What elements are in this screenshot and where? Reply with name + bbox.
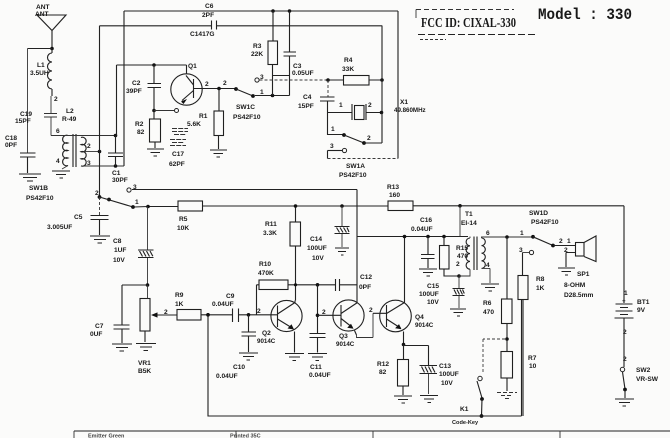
svg-text:2: 2 <box>322 309 326 316</box>
svg-text:1K: 1K <box>536 285 545 292</box>
capacitor C9 <box>212 293 278 322</box>
wire top rail y11 <box>124 10 398 12</box>
svg-text:R10: R10 <box>259 261 271 268</box>
svg-text:C9: C9 <box>226 293 235 300</box>
svg-text:2: 2 <box>257 308 261 315</box>
wire SW1B terminal1 to rail <box>134 206 148 209</box>
svg-text:2: 2 <box>623 356 627 363</box>
svg-text:2: 2 <box>223 80 227 87</box>
switch SW1B <box>26 184 139 209</box>
transistor Q3 <box>322 300 364 348</box>
resistor R1 <box>187 89 224 150</box>
svg-text:C7: C7 <box>95 323 104 330</box>
svg-text:FCC ID: CIXAL-330: FCC ID: CIXAL-330 <box>421 16 516 31</box>
svg-text:C18: C18 <box>5 135 17 142</box>
svg-text:T1: T1 <box>465 211 473 218</box>
transistor Q4 <box>369 237 434 345</box>
node C15 top <box>457 274 461 278</box>
node C2/R2 <box>152 109 156 113</box>
svg-text:0.04UF: 0.04UF <box>216 373 238 380</box>
switch SW1C <box>205 74 264 121</box>
ground under VR1 <box>136 344 156 351</box>
wire rail y206.5 <box>148 205 624 208</box>
svg-text:3.3K: 3.3K <box>263 230 277 237</box>
svg-text:L1: L1 <box>37 62 45 69</box>
svg-text:100UF: 100UF <box>307 245 327 252</box>
FCC ID box <box>416 10 537 40</box>
battery BT1 <box>615 290 650 367</box>
svg-text:10K: 10K <box>177 225 189 232</box>
transistor Q2 <box>257 300 302 352</box>
svg-text:2: 2 <box>559 238 563 245</box>
svg-text:Code-Key: Code-Key <box>452 420 479 426</box>
svg-text:82: 82 <box>137 129 145 136</box>
resistor R9 <box>164 292 233 320</box>
capacitor C14 <box>307 206 350 262</box>
wire supply right down to battery <box>623 206 625 303</box>
wire T1 pin1 <box>459 206 461 237</box>
capacitor C15 <box>419 276 465 308</box>
svg-text:0PF: 0PF <box>359 284 371 291</box>
svg-text:6: 6 <box>486 230 490 237</box>
svg-text:C10: C10 <box>233 364 245 371</box>
resistor R12 <box>377 345 409 396</box>
node C9 right <box>247 313 251 317</box>
resistor R7 <box>501 352 537 392</box>
svg-text:SW1B: SW1B <box>29 185 48 192</box>
node R4 left <box>326 78 330 82</box>
svg-text:C6: C6 <box>205 3 214 10</box>
wire emitter to C13 <box>404 346 429 366</box>
svg-text:39PF: 39PF <box>126 88 142 95</box>
wire to C7 <box>122 285 148 325</box>
svg-text:100UF: 100UF <box>439 371 459 378</box>
capacitor C1 <box>108 136 128 185</box>
potentiometer VR1 <box>138 285 177 375</box>
node R3 bottom <box>271 94 275 98</box>
svg-text:Q4: Q4 <box>415 314 424 321</box>
svg-text:R5: R5 <box>179 216 188 223</box>
capacitor C8 <box>113 207 154 286</box>
resistor R11 <box>263 206 301 301</box>
svg-text:1: 1 <box>135 199 139 206</box>
svg-text:Q3: Q3 <box>339 333 348 340</box>
node C8 bottom <box>146 283 150 287</box>
capacitor C13 <box>420 363 459 394</box>
transformer L2 <box>56 108 91 167</box>
svg-text:C1417G: C1417G <box>190 31 215 38</box>
svg-text:C3: C3 <box>293 63 302 70</box>
capacitor C2 <box>126 65 161 111</box>
svg-text:5.6K: 5.6K <box>187 121 201 128</box>
capacitor C16 <box>411 217 435 268</box>
svg-text:470: 470 <box>483 309 494 316</box>
svg-text:C15: C15 <box>427 283 439 290</box>
wire x124 from top rail to pin3 line <box>123 11 125 166</box>
wire ANT to C18 column <box>28 48 53 50</box>
svg-text:10V: 10V <box>441 380 453 387</box>
svg-text:R12: R12 <box>377 361 389 368</box>
svg-text:SW1A: SW1A <box>346 163 365 170</box>
node R1 top <box>217 87 221 91</box>
svg-text:1: 1 <box>520 230 524 237</box>
inductor L1 <box>30 49 58 103</box>
svg-text:0PF: 0PF <box>5 142 17 149</box>
ground under C5 <box>90 236 110 243</box>
capacitor C7 <box>90 323 130 343</box>
node X1 right <box>380 111 384 115</box>
wire SW1D to speaker <box>553 245 576 247</box>
svg-text:2: 2 <box>368 102 372 109</box>
svg-text:Model : 330: Model : 330 <box>538 6 632 24</box>
ground under T1 pin4 <box>481 284 499 291</box>
node rail R11 <box>294 204 298 208</box>
ground under C18 <box>19 174 41 181</box>
node C9 rail top <box>206 313 210 317</box>
switch SW1D <box>519 210 559 255</box>
wire x116 from y65 down to pin6 node <box>116 65 118 136</box>
capacitor C6 <box>190 3 217 38</box>
svg-text:9014C: 9014C <box>415 322 434 329</box>
resistor R2 <box>135 111 161 149</box>
svg-text:C12: C12 <box>360 274 372 281</box>
svg-text:B5K: B5K <box>138 368 151 375</box>
node ANT junction <box>50 47 54 51</box>
svg-text:SW1C: SW1C <box>236 104 255 111</box>
svg-text:2: 2 <box>367 135 371 142</box>
svg-text:0.04UF: 0.04UF <box>411 226 433 233</box>
svg-text:ANT: ANT <box>36 4 50 11</box>
svg-text:3.005UF: 3.005UF <box>47 224 72 231</box>
svg-text:C13: C13 <box>439 363 451 370</box>
svg-text:62PF: 62PF <box>169 161 185 168</box>
wire SW1A-3 to x398 dashed <box>327 151 329 159</box>
svg-text:Q1: Q1 <box>188 63 197 70</box>
svg-text:X1: X1 <box>400 99 408 106</box>
svg-text:C17: C17 <box>172 151 184 158</box>
svg-text:R7: R7 <box>528 355 537 362</box>
resistor R10 <box>257 261 336 315</box>
svg-text:Printed 35C: Printed 35C <box>230 434 261 438</box>
svg-text:PS42F10: PS42F10 <box>26 195 54 202</box>
svg-text:49.860MHz: 49.860MHz <box>394 107 426 114</box>
wire bottom rail <box>208 300 522 417</box>
switch SW2 <box>620 367 658 398</box>
ground under SW2 <box>615 399 634 406</box>
ground under L2 pin 4 <box>52 171 70 178</box>
ground under Q2 emitter <box>285 354 304 361</box>
wire L2 pin3 line <box>84 165 124 167</box>
node T1-6/R6 <box>505 235 509 239</box>
ground under C13 <box>420 396 438 403</box>
capacitor C18 <box>5 135 36 173</box>
capacitor C17 <box>169 129 188 169</box>
resistor R5 <box>177 201 203 232</box>
svg-text:SW2: SW2 <box>636 367 651 374</box>
svg-text:2: 2 <box>623 329 627 336</box>
wire SW1C t1 to R3/C3 node <box>255 95 290 97</box>
node pin2 junction <box>98 150 102 154</box>
svg-text:9014C: 9014C <box>336 341 355 348</box>
node C11 top <box>316 283 320 287</box>
svg-text:3: 3 <box>330 143 334 150</box>
svg-text:K1: K1 <box>460 406 469 413</box>
wire x398 from top rail <box>397 11 399 159</box>
svg-text:10V: 10V <box>312 255 324 262</box>
svg-text:0.04UF: 0.04UF <box>309 372 331 379</box>
svg-text:R11: R11 <box>265 221 277 228</box>
svg-text:0UF: 0UF <box>90 331 102 338</box>
svg-text:C2: C2 <box>132 80 141 87</box>
svg-text:SW1D: SW1D <box>529 210 548 217</box>
wire rail2 corner x382 down <box>381 26 383 113</box>
node C16 top <box>426 235 430 239</box>
wire node to K1 dashed <box>483 339 505 374</box>
svg-text:2: 2 <box>164 309 168 316</box>
svg-text:D28.5mm: D28.5mm <box>564 292 593 299</box>
svg-text:VR1: VR1 <box>138 360 151 367</box>
speaker SP1 <box>559 236 596 299</box>
wire SW1B-3 line y189.5 <box>132 189 357 191</box>
svg-text:C4: C4 <box>303 94 312 101</box>
node Q4 emitter <box>402 343 406 347</box>
resistor R4 <box>328 57 382 85</box>
node top rail R3 <box>271 9 275 13</box>
node R15 top <box>442 235 446 239</box>
node R6/R7 <box>505 337 509 341</box>
ground under C11 <box>308 354 327 361</box>
wire to Q1 emitter circle <box>154 110 174 112</box>
node C2 top <box>152 63 156 67</box>
svg-text:0.05UF: 0.05UF <box>292 70 314 77</box>
svg-text:1UF: 1UF <box>114 247 126 254</box>
capacitor C11 <box>309 285 331 379</box>
wire R3/C3 bottom link <box>273 76 290 96</box>
node y236 Q4 collector <box>403 235 407 239</box>
svg-text:C14: C14 <box>310 236 322 243</box>
svg-text:C19: C19 <box>20 111 32 118</box>
svg-text:470K: 470K <box>258 270 274 277</box>
table bottom border <box>74 431 670 438</box>
ground under C7 <box>112 344 132 351</box>
node rail/C8 <box>146 205 150 209</box>
svg-text:10V: 10V <box>113 257 125 264</box>
svg-text:4: 4 <box>56 158 60 165</box>
svg-text:1: 1 <box>339 102 343 109</box>
svg-text:15PF: 15PF <box>15 118 31 125</box>
svg-text:1K: 1K <box>175 301 184 308</box>
capacitor C4 <box>298 80 335 113</box>
wire rails link x289 <box>289 11 291 26</box>
svg-text:100UF: 100UF <box>419 291 439 298</box>
wire x99 from rail2 to SW1B <box>99 26 101 197</box>
ground under C14 <box>335 248 349 255</box>
svg-text:R1: R1 <box>199 113 208 120</box>
svg-text:3.5UH: 3.5UH <box>30 70 49 77</box>
svg-text:PS42F10: PS42F10 <box>339 172 367 179</box>
svg-text:0.04UF: 0.04UF <box>212 301 234 308</box>
key K1 <box>452 376 484 426</box>
svg-text:EI-14: EI-14 <box>461 220 477 227</box>
wire y65 from corner to Q1 <box>117 64 187 66</box>
node top rail x289 <box>288 9 292 13</box>
resistor R13 <box>387 184 413 211</box>
antenna ANT <box>35 4 66 49</box>
svg-text:8-OHM: 8-OHM <box>564 282 586 289</box>
switch SW1A <box>328 113 383 180</box>
wire x382 down to SW1A-2 <box>381 113 383 144</box>
node C11/Q3 base <box>316 314 320 318</box>
svg-text:C8: C8 <box>113 238 122 245</box>
capacitor C19 <box>15 96 57 136</box>
svg-text:2: 2 <box>205 81 209 88</box>
svg-text:160: 160 <box>389 192 400 199</box>
node rail C14 <box>340 204 344 208</box>
svg-text:R3: R3 <box>253 43 262 50</box>
node R10/collector <box>294 283 297 286</box>
node pin6/C1 junction <box>114 134 118 138</box>
wire y236.5 line <box>357 236 468 238</box>
wire dashed SW1C-3 to R4 node <box>260 79 329 81</box>
svg-text:2: 2 <box>87 143 91 150</box>
svg-text:10V: 10V <box>427 299 439 306</box>
svg-text:15PF: 15PF <box>298 103 314 110</box>
svg-text:R6: R6 <box>483 300 492 307</box>
svg-text:SP1: SP1 <box>577 271 590 278</box>
capacitor C3 <box>284 26 314 78</box>
svg-text:R8: R8 <box>536 276 545 283</box>
node rail T1 <box>458 204 462 208</box>
svg-text:2: 2 <box>54 96 58 103</box>
svg-text:1: 1 <box>567 238 571 245</box>
svg-text:R4: R4 <box>344 57 353 64</box>
node y314 x208 <box>206 313 210 317</box>
svg-text:R13: R13 <box>387 184 399 191</box>
transformer T1 <box>456 211 533 283</box>
ground under C10 <box>239 353 258 360</box>
svg-text:2: 2 <box>369 307 373 314</box>
svg-text:C16: C16 <box>420 217 432 224</box>
svg-text:R9: R9 <box>175 292 184 299</box>
svg-text:VR-SW: VR-SW <box>636 376 659 383</box>
ground under R2 <box>147 149 164 156</box>
crystal X1 <box>328 99 426 120</box>
svg-text:6: 6 <box>56 128 60 135</box>
svg-text:30PF: 30PF <box>112 177 128 184</box>
wire C18 column <box>27 49 29 154</box>
node K1 bottom rail <box>480 414 484 418</box>
svg-text:1: 1 <box>331 126 335 133</box>
wire x357 down <box>356 190 358 303</box>
node R4 right <box>380 78 384 82</box>
svg-text:9V: 9V <box>637 307 646 314</box>
resistor R15 <box>440 237 469 277</box>
ground under C16 <box>419 269 437 276</box>
wire Q3 emitter to Q4 base <box>357 313 374 337</box>
svg-text:82: 82 <box>379 369 387 376</box>
svg-text:1: 1 <box>624 290 628 297</box>
capacitor C12 <box>336 274 373 291</box>
svg-text:C1: C1 <box>112 170 121 177</box>
svg-text:Q2: Q2 <box>262 330 271 337</box>
ground under C15 <box>450 309 466 316</box>
svg-text:BT1: BT1 <box>637 299 650 306</box>
svg-text:22K: 22K <box>251 51 263 58</box>
svg-text:PS42F10: PS42F10 <box>233 114 261 121</box>
ground under R12 <box>394 396 412 403</box>
svg-text:9014C: 9014C <box>257 338 276 345</box>
svg-text:2PF: 2PF <box>202 12 214 19</box>
svg-text:33K: 33K <box>342 66 354 73</box>
svg-text:C11: C11 <box>310 364 322 371</box>
capacitor C5 <box>47 197 109 235</box>
svg-text:R2: R2 <box>135 121 144 128</box>
resistor R6 <box>483 237 512 352</box>
capacitor C10 <box>216 315 256 380</box>
wire rail2 y25.5 <box>100 25 383 27</box>
transistor Q1 <box>171 63 236 105</box>
node pin3/C1 junction <box>114 164 118 168</box>
resistor R3 <box>251 11 278 96</box>
wire L2 pin4 to ground <box>62 166 68 170</box>
svg-text:R-49: R-49 <box>62 116 77 123</box>
svg-text:Emitter Green: Emitter Green <box>88 434 125 438</box>
wire L2 pin2 line <box>84 151 100 153</box>
ground under R1 <box>210 150 227 157</box>
svg-text:2: 2 <box>456 261 460 268</box>
ground under SP1 <box>558 268 575 275</box>
svg-text:10: 10 <box>529 363 537 370</box>
wire Q3 base <box>318 314 342 316</box>
svg-text:PS42F10: PS42F10 <box>531 219 559 226</box>
svg-text:L2: L2 <box>66 108 74 115</box>
svg-text:C5: C5 <box>74 214 83 221</box>
ground under R7 <box>497 393 517 399</box>
wire L2 pin6 line <box>51 135 116 137</box>
resistor R8 <box>518 253 545 417</box>
